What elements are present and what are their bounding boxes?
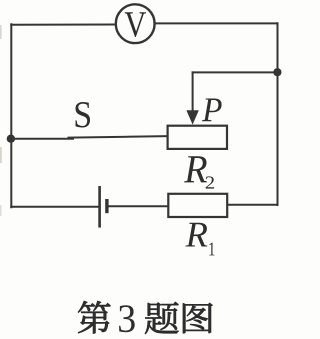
voltmeter U1 letter V	[125, 12, 146, 37]
node junction right (slider tap)	[273, 68, 281, 76]
rheostat slider arrowhead	[186, 110, 198, 124]
wire top-right (voltmeter to right rail)	[156, 22, 278, 24]
rheostat R2 body	[168, 126, 227, 149]
wire battery to resistor R1	[108, 205, 168, 207]
wire slider horizontal to right rail	[193, 71, 278, 73]
label R2 subscript 2	[206, 176, 214, 188]
label R1 letter R	[185, 223, 207, 247]
wire left vertical rail	[10, 24, 12, 207]
label R1 subscript 1	[209, 243, 214, 256]
caption character 题	[145, 302, 179, 334]
label P (slider)	[202, 99, 222, 122]
caption character 第	[78, 301, 111, 334]
caption digit 3	[119, 305, 135, 332]
label S (switch)	[76, 102, 91, 128]
wire switch branch left segment	[11, 138, 73, 140]
voltmeter U1 circle	[116, 4, 155, 43]
wire top-left (left rail to voltmeter)	[11, 24, 115, 26]
wire bottom-left (left rail to battery)	[11, 206, 98, 208]
wire slider vertical drop	[192, 72, 194, 112]
wire right vertical rail	[277, 23, 279, 205]
battery B1 short plate	[105, 199, 108, 213]
wire resistor R1 to right rail	[227, 204, 277, 206]
scan artifact left edge middle	[0, 147, 2, 163]
switch S blade wire to rheostat	[69, 136, 168, 137]
label R2 letter R	[184, 156, 207, 182]
resistor R1 body	[168, 194, 227, 217]
scan artifact left edge upper	[0, 25, 2, 39]
battery B1 long plate	[98, 186, 101, 228]
scan artifact left edge lower	[0, 205, 2, 216]
caption character 图	[183, 303, 213, 333]
node junction left (switch branch tap)	[7, 135, 15, 143]
